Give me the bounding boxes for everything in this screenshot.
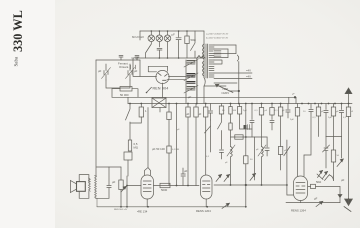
svg-text:REN 904: REN 904 (153, 87, 169, 91)
svg-text:•RE 134: •RE 134 (137, 210, 148, 214)
svg-text:µF: µF (314, 197, 318, 201)
svg-text:RENS 1204: RENS 1204 (196, 209, 211, 213)
svg-text:MΩ: MΩ (134, 146, 138, 150)
svg-text:a=220V 2x300V 4V 4V: a=220V 2x300V 4V 4V (206, 34, 229, 36)
svg-text:≈150: ≈150 (131, 56, 138, 60)
svg-text:RENS 1264: RENS 1264 (291, 209, 306, 213)
svg-text:≈4V: ≈4V (246, 69, 251, 73)
svg-text:µF: µF (188, 95, 192, 99)
svg-text:µF: µF (98, 69, 102, 73)
svg-text:50 000: 50 000 (120, 93, 129, 97)
svg-text:2µF: 2µF (328, 117, 332, 119)
svg-text:2µF: 2µF (243, 110, 247, 112)
svg-text:µF: µF (184, 169, 188, 173)
svg-text:µF: µF (172, 33, 176, 37)
svg-text:µF: µF (198, 112, 202, 116)
svg-text:Ortsant.: Ortsant. (119, 65, 129, 69)
svg-text:µF: µF (134, 69, 138, 73)
svg-text:µF: µF (186, 112, 190, 116)
svg-text:330 WL: 330 WL (11, 10, 25, 52)
svg-text:5000: 5000 (161, 188, 168, 192)
svg-text:50Ω: 50Ω (316, 180, 321, 184)
svg-text:≈220V: ≈220V (221, 91, 229, 95)
svg-text:µF: µF (112, 180, 116, 184)
svg-text:b=110V 2x300V 4V 4V: b=110V 2x300V 4V 4V (206, 38, 229, 40)
svg-text:Saba: Saba (15, 56, 20, 67)
svg-text:REN 904 ≈4V: REN 904 ≈4V (114, 208, 128, 211)
svg-text:≈150: ≈150 (222, 87, 229, 91)
svg-text:µF: µF (341, 178, 345, 182)
svg-text:0,1 MΩ: 0,1 MΩ (172, 149, 179, 151)
svg-text:≈4V: ≈4V (246, 75, 251, 79)
svg-text:50Ω: 50Ω (191, 38, 196, 42)
svg-text:6CU=6LV: 6CU=6LV (132, 35, 144, 39)
svg-text:2µF: 2µF (290, 119, 294, 121)
svg-text:µF·50 100: µF·50 100 (152, 147, 165, 151)
